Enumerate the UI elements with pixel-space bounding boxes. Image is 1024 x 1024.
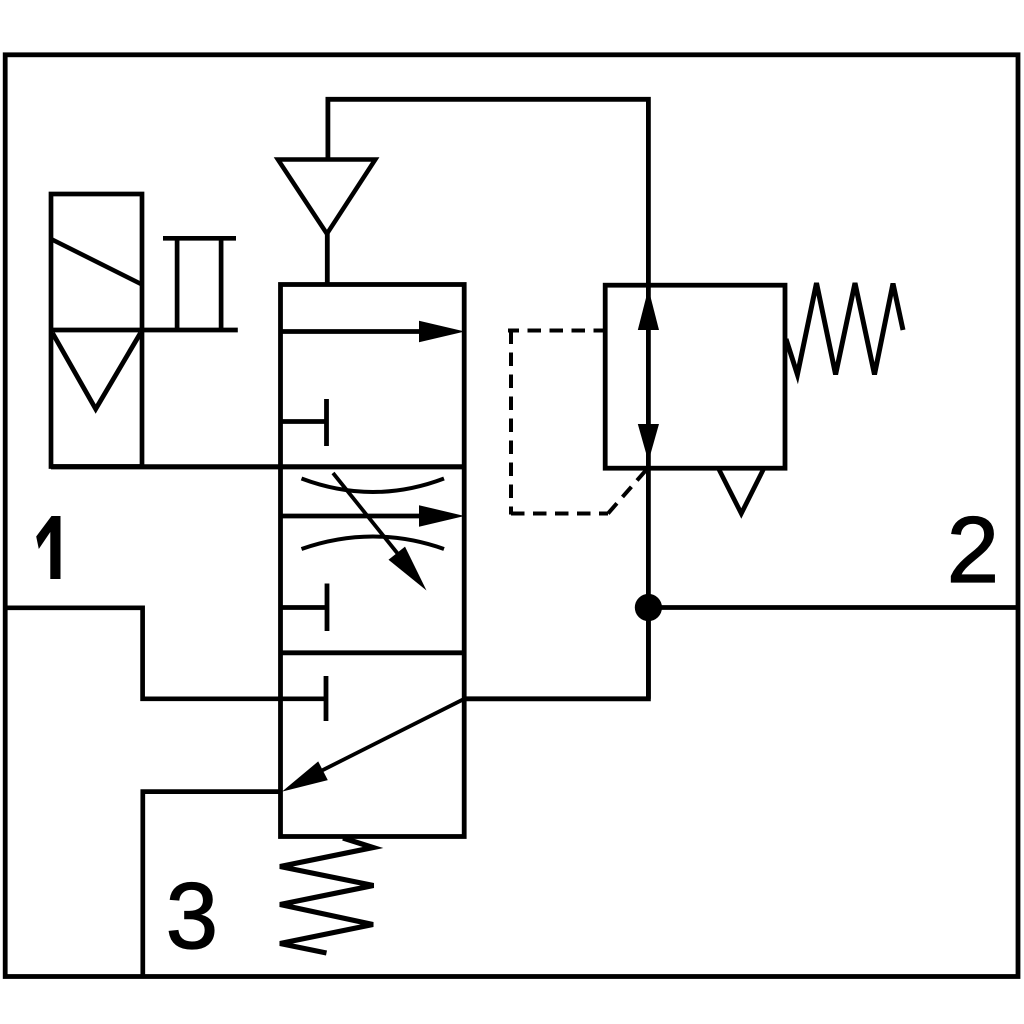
valve body (281, 285, 465, 837)
wire solenoid bottom to valve divider (51, 464, 464, 469)
arrow chamber2 (281, 505, 465, 527)
svg-text:2: 2 (947, 497, 999, 602)
regulator spring right (786, 283, 903, 375)
spring bottom (280, 838, 374, 953)
valve divider lower (281, 650, 465, 655)
regulator arrowhead up (638, 289, 659, 331)
exhaust triangle top (278, 160, 375, 234)
wire port3 (143, 792, 281, 977)
solenoid diagonal (51, 239, 142, 285)
plug T chamber3 (324, 676, 329, 721)
regulator box (605, 285, 785, 468)
node junction (635, 594, 662, 621)
plug T chamber2 (281, 584, 327, 632)
pilot piston symbol (163, 238, 236, 330)
wire valve to node (464, 608, 648, 699)
wire top pilot loop (328, 99, 649, 285)
flow diagonal chamber3 (282, 699, 464, 792)
wire triangle to valve top (325, 231, 330, 285)
solenoid box (51, 194, 142, 467)
throttle arc lower (302, 537, 445, 550)
arrow chamber1 (281, 321, 465, 343)
wire port1 (5, 608, 327, 699)
throttle adjust arrow (333, 473, 427, 591)
wire port2 (648, 605, 1018, 610)
throttle arc upper (302, 479, 445, 493)
svg-text:3: 3 (166, 863, 218, 968)
regulator arrowhead down (638, 424, 659, 462)
regulator arrow line (646, 285, 651, 699)
port label 1 (36, 516, 60, 579)
pilot line dashed (508, 331, 647, 515)
wire actuation line (51, 328, 238, 333)
plug T chamber1 (281, 399, 327, 446)
solenoid triangle (53, 333, 141, 409)
regulator vent triangle (719, 470, 763, 514)
